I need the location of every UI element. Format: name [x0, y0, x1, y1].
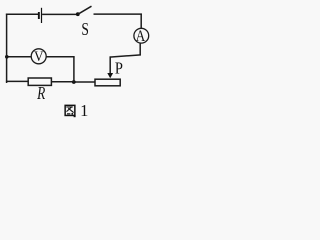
rheostat wiper arm with arrowhead: [107, 56, 113, 78]
rheostat body box: [95, 79, 120, 86]
wire bottom left segment: [6, 80, 29, 82]
svg-text:P: P: [115, 59, 123, 77]
wire top-left segment: [6, 13, 38, 15]
svg-text:1: 1: [80, 101, 88, 120]
switch S pivot dot: [76, 12, 80, 16]
wire resistor to junction: [51, 81, 74, 83]
voltmeter circle: [31, 49, 46, 64]
node junction bottom: [72, 80, 76, 84]
wire ammeter down to corner: [139, 43, 141, 56]
svg-text:V: V: [34, 48, 44, 65]
wire switch to top-right corner: [94, 13, 142, 15]
wire voltmeter branch vertical: [73, 56, 75, 81]
svg-text:S: S: [81, 20, 89, 39]
wire left side vertical: [6, 14, 8, 84]
battery cell: [38, 8, 42, 23]
switch S blade: [78, 6, 92, 14]
wire rheostat left terminal to junction: [74, 81, 95, 83]
wire voltmeter to branch corner: [46, 56, 75, 58]
svg-text:A: A: [136, 28, 146, 45]
wire battery to switch: [42, 13, 77, 15]
node junction left: [5, 55, 9, 59]
caption glyph 图: [64, 105, 75, 118]
wire corner to wiper: [110, 55, 141, 57]
wire right side down to ammeter: [140, 14, 142, 29]
svg-text:R: R: [36, 84, 45, 103]
wire junction dot to voltmeter: [6, 56, 31, 58]
resistor R box: [28, 78, 51, 85]
ammeter U A circle: [134, 28, 149, 43]
